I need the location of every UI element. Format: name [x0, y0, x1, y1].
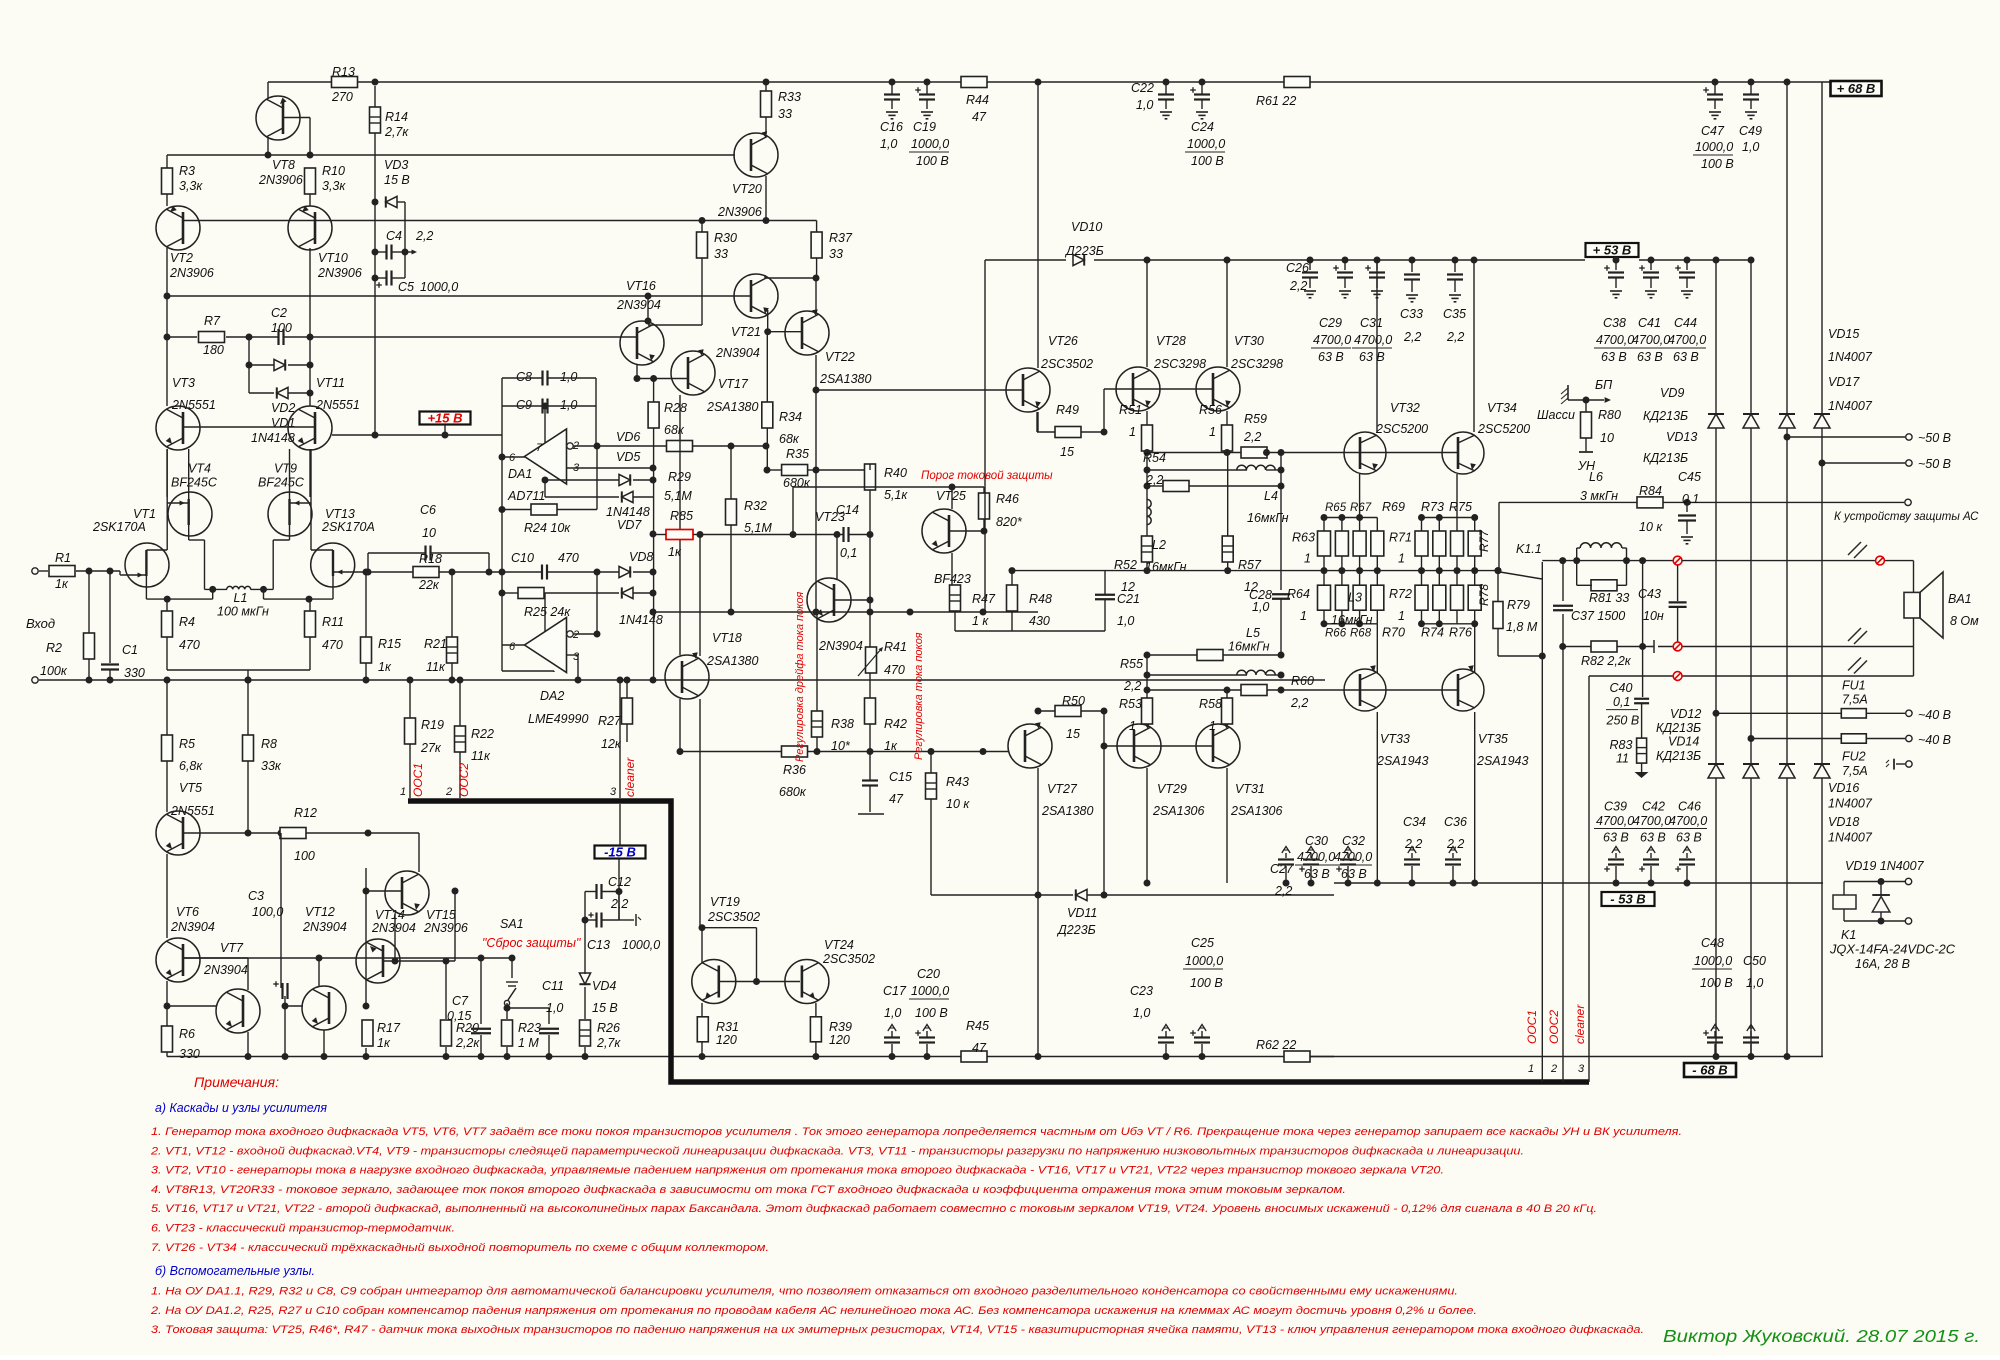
svg-text:ООС2: ООС2: [1547, 1010, 1561, 1044]
svg-text:R63: R63: [1292, 531, 1315, 545]
svg-text:SA1: SA1: [500, 917, 524, 931]
svg-text:R71: R71: [1389, 531, 1412, 545]
svg-text:6: 6: [509, 641, 516, 653]
svg-text:КД213Б: КД213Б: [1656, 721, 1701, 735]
svg-text:10: 10: [1600, 431, 1614, 445]
svg-text:R47: R47: [972, 592, 996, 606]
svg-text:33: 33: [829, 247, 843, 261]
svg-text:1к: 1к: [55, 577, 69, 591]
svg-text:- 53 В: - 53 В: [1610, 892, 1645, 907]
svg-text:R25 24к: R25 24к: [524, 605, 571, 619]
svg-text:33: 33: [714, 247, 728, 261]
svg-text:1к: 1к: [377, 1036, 391, 1050]
svg-text:L2: L2: [1152, 538, 1166, 552]
svg-text:~50 В: ~50 В: [1918, 457, 1951, 471]
svg-text:R21: R21: [424, 637, 447, 651]
svg-text:VD1: VD1: [271, 416, 295, 430]
svg-text:11к: 11к: [471, 749, 491, 763]
svg-text:~50 В: ~50 В: [1918, 431, 1951, 445]
svg-text:R8: R8: [261, 737, 277, 751]
svg-text:2,2: 2,2: [1145, 473, 1163, 487]
svg-text:VT5: VT5: [179, 781, 202, 795]
svg-text:2,7к: 2,7к: [384, 125, 409, 139]
svg-text:4700,0: 4700,0: [1633, 814, 1671, 828]
svg-text:VT18: VT18: [712, 631, 742, 645]
svg-text:15 В: 15 В: [592, 1001, 618, 1015]
svg-text:VT19: VT19: [710, 895, 740, 909]
svg-text:2,2: 2,2: [1404, 837, 1422, 851]
svg-text:R61 22: R61 22: [1256, 94, 1296, 108]
svg-text:C32: C32: [1342, 834, 1365, 848]
svg-text:R83: R83: [1610, 738, 1633, 752]
svg-text:R78: R78: [1477, 584, 1491, 606]
svg-text:C46: C46: [1678, 800, 1701, 814]
svg-text:VT30: VT30: [1234, 334, 1264, 348]
svg-text:1. Генератор тока входного диф: 1. Генератор тока входного дифкаскада VT…: [151, 1126, 1682, 1138]
svg-text:1000,0: 1000,0: [911, 984, 949, 998]
svg-text:2. На ОУ DA1.2, R25, R27 и C10: 2. На ОУ DA1.2, R25, R27 и C10 собран ко…: [150, 1305, 1477, 1317]
svg-text:16мкГн: 16мкГн: [1247, 511, 1289, 525]
svg-text:2N3906: 2N3906: [423, 921, 468, 935]
svg-text:C9: C9: [516, 398, 532, 412]
svg-text:1,0: 1,0: [884, 1006, 901, 1020]
svg-text:R40: R40: [884, 466, 907, 480]
svg-text:120: 120: [829, 1033, 850, 1047]
svg-text:R69: R69: [1382, 500, 1405, 514]
svg-text:R79: R79: [1507, 598, 1530, 612]
svg-text:BF245C: BF245C: [171, 476, 218, 490]
svg-text:4700,0: 4700,0: [1632, 333, 1670, 347]
svg-text:3,3к: 3,3к: [179, 179, 203, 193]
svg-text:C4: C4: [386, 229, 402, 243]
svg-text:УН: УН: [1577, 459, 1596, 473]
svg-text:R28: R28: [664, 401, 687, 415]
svg-text:К устройству защиты АС: К устройству защиты АС: [1834, 511, 1979, 523]
svg-text:R54: R54: [1143, 451, 1166, 465]
svg-text:VT12: VT12: [305, 905, 335, 919]
svg-text:4700,0: 4700,0: [1354, 333, 1392, 347]
svg-text:15: 15: [1066, 727, 1080, 741]
svg-text:VT22: VT22: [825, 350, 855, 364]
svg-text:1000,0: 1000,0: [1695, 140, 1733, 154]
svg-text:2,7к: 2,7к: [596, 1036, 621, 1050]
svg-text:2,2: 2,2: [1403, 330, 1421, 344]
svg-text:C50: C50: [1743, 954, 1766, 968]
svg-text:2SA1380: 2SA1380: [706, 654, 758, 668]
svg-text:2SA1943: 2SA1943: [1476, 754, 1528, 768]
svg-text:68к: 68к: [664, 423, 685, 437]
svg-text:R68: R68: [1350, 627, 1372, 639]
svg-text:C48: C48: [1701, 936, 1724, 950]
svg-text:R46: R46: [996, 492, 1019, 506]
svg-text:100 В: 100 В: [1701, 157, 1734, 171]
svg-text:2. VT1, VT12 - входной дифкаск: 2. VT1, VT12 - входной дифкаскад.VT4, VT…: [150, 1145, 1524, 1157]
svg-text:VT8: VT8: [272, 158, 295, 172]
svg-text:10 к: 10 к: [1639, 520, 1663, 534]
svg-text:C41: C41: [1638, 316, 1661, 330]
svg-text:R53: R53: [1119, 697, 1142, 711]
svg-text:100 В: 100 В: [915, 1006, 948, 1020]
svg-text:7: 7: [536, 442, 543, 454]
svg-text:0,1: 0,1: [1682, 492, 1699, 506]
svg-text:R27: R27: [598, 714, 622, 728]
svg-text:270: 270: [331, 90, 353, 104]
svg-text:2,2: 2,2: [1123, 679, 1141, 693]
svg-text:Д223Б: Д223Б: [1056, 923, 1096, 937]
svg-text:1N4007: 1N4007: [1828, 399, 1873, 413]
svg-text:1N4007: 1N4007: [1828, 831, 1873, 845]
svg-text:R5: R5: [179, 737, 195, 751]
svg-text:VD18: VD18: [1828, 815, 1859, 829]
svg-text:2SK170A: 2SK170A: [92, 520, 146, 534]
svg-text:БП: БП: [1595, 378, 1613, 392]
svg-text:100 В: 100 В: [916, 154, 949, 168]
svg-text:VT14: VT14: [375, 908, 405, 922]
svg-text:27к: 27к: [420, 741, 442, 755]
svg-text:L3: L3: [1348, 591, 1362, 605]
svg-text:1000,0: 1000,0: [1694, 954, 1732, 968]
svg-text:C29: C29: [1319, 316, 1342, 330]
svg-text:C40: C40: [1610, 681, 1633, 695]
svg-text:C21: C21: [1117, 592, 1140, 606]
svg-text:R7: R7: [204, 314, 221, 328]
svg-text:VT2: VT2: [170, 251, 193, 265]
svg-text:C6: C6: [420, 503, 436, 517]
svg-text:2,2: 2,2: [415, 229, 433, 243]
svg-text:C7: C7: [452, 994, 469, 1008]
svg-text:5,1к: 5,1к: [884, 488, 908, 502]
svg-text:3. VT2, VT10 - генераторы тока: 3. VT2, VT10 - генераторы тока в нагрузк…: [151, 1165, 1444, 1177]
svg-text:C24: C24: [1191, 120, 1214, 134]
svg-text:100: 100: [294, 849, 315, 863]
svg-text:1,0: 1,0: [1742, 140, 1759, 154]
svg-text:VT17: VT17: [718, 377, 749, 391]
svg-text:2SC3298: 2SC3298: [1153, 357, 1206, 371]
svg-text:3. Токовая защита: VT25, R46*,: 3. Токовая защита: VT25, R46*, R47 - дат…: [151, 1324, 1644, 1336]
svg-text:330: 330: [124, 666, 145, 680]
svg-text:VD17: VD17: [1828, 375, 1860, 389]
svg-text:R59: R59: [1244, 412, 1267, 426]
svg-text:VT29: VT29: [1157, 782, 1187, 796]
svg-text:63 В: 63 В: [1318, 350, 1344, 364]
svg-text:C5: C5: [398, 280, 414, 294]
svg-text:VT13: VT13: [325, 507, 355, 521]
svg-text:5,1М: 5,1М: [664, 489, 692, 503]
svg-text:1: 1: [400, 786, 406, 798]
svg-text:120: 120: [716, 1033, 737, 1047]
svg-text:10 к: 10 к: [946, 797, 970, 811]
svg-text:C10: C10: [511, 551, 534, 565]
svg-text:ООС1: ООС1: [1525, 1010, 1539, 1044]
svg-text:R19: R19: [421, 718, 444, 732]
svg-text:R24 10к: R24 10к: [524, 521, 571, 535]
svg-text:C20: C20: [917, 967, 940, 981]
svg-text:BA1: BA1: [1948, 592, 1972, 606]
svg-text:C2: C2: [271, 306, 287, 320]
svg-text:R55: R55: [1120, 657, 1143, 671]
svg-text:R33: R33: [778, 90, 801, 104]
svg-text:R42: R42: [884, 717, 907, 731]
svg-text:K1.1: K1.1: [1516, 542, 1542, 556]
svg-text:1N4148: 1N4148: [606, 505, 650, 519]
svg-text:R30: R30: [714, 231, 737, 245]
svg-text:+ 68 В: + 68 В: [1837, 81, 1876, 96]
svg-text:а) Каскады и узлы усилителя: а) Каскады и узлы усилителя: [155, 1100, 327, 1115]
svg-text:1,0: 1,0: [1136, 98, 1153, 112]
svg-text:100: 100: [271, 321, 292, 335]
svg-text:L1: L1: [234, 591, 248, 605]
svg-text:2,2: 2,2: [1446, 837, 1464, 851]
svg-text:2SA1380: 2SA1380: [1041, 804, 1093, 818]
svg-text:2,2: 2,2: [1243, 430, 1261, 444]
svg-text:R38: R38: [831, 717, 854, 731]
svg-text:R22: R22: [471, 727, 494, 741]
svg-text:R14: R14: [385, 110, 408, 124]
svg-text:2N3904: 2N3904: [371, 921, 416, 935]
svg-text:VD7: VD7: [617, 518, 642, 532]
svg-text:VT26: VT26: [1048, 334, 1078, 348]
svg-text:R77: R77: [1477, 529, 1491, 552]
svg-text:2N3906: 2N3906: [317, 266, 362, 280]
svg-text:VT23: VT23: [815, 510, 845, 524]
svg-text:2N3906: 2N3906: [169, 266, 214, 280]
svg-text:VD4: VD4: [592, 979, 616, 993]
svg-text:1: 1: [1129, 719, 1136, 733]
svg-text:C36: C36: [1444, 815, 1467, 829]
svg-text:+15 В: +15 В: [427, 411, 462, 426]
svg-text:VD15: VD15: [1828, 327, 1859, 341]
svg-text:R44: R44: [966, 93, 989, 107]
svg-text:C23: C23: [1130, 984, 1153, 998]
svg-text:1,0: 1,0: [560, 370, 577, 384]
svg-text:R82 2,2к: R82 2,2к: [1581, 654, 1632, 668]
svg-text:10: 10: [422, 526, 436, 540]
svg-text:2N3904: 2N3904: [616, 298, 661, 312]
svg-text:R32: R32: [744, 499, 767, 513]
svg-text:100 В: 100 В: [1700, 976, 1733, 990]
svg-text:VD3: VD3: [384, 158, 408, 172]
svg-text:+ 53 В: + 53 В: [1593, 243, 1632, 258]
svg-text:470: 470: [884, 663, 905, 677]
svg-text:C39: C39: [1604, 800, 1627, 814]
svg-text:VT25: VT25: [936, 489, 966, 503]
svg-text:R66: R66: [1325, 627, 1347, 639]
svg-text:C13: C13: [587, 938, 610, 952]
svg-text:R17: R17: [377, 1021, 401, 1035]
svg-text:ООС1: ООС1: [411, 763, 425, 797]
svg-text:R81 33: R81 33: [1589, 591, 1629, 605]
svg-text:VT27: VT27: [1047, 782, 1078, 796]
svg-text:VT3: VT3: [172, 376, 195, 390]
svg-text:R36: R36: [783, 763, 806, 777]
svg-text:R60: R60: [1291, 674, 1314, 688]
svg-text:C47: C47: [1701, 124, 1725, 138]
svg-text:C38: C38: [1603, 316, 1626, 330]
svg-text:63 В: 63 В: [1603, 831, 1629, 845]
svg-text:4700,0: 4700,0: [1669, 814, 1707, 828]
svg-text:VT24: VT24: [824, 938, 854, 952]
svg-text:R49: R49: [1056, 403, 1079, 417]
svg-text:1N4007: 1N4007: [1828, 797, 1873, 811]
svg-text:4. VT8R13, VT20R33 - токовое з: 4. VT8R13, VT20R33 - токовое зеркало, за…: [151, 1184, 1346, 1196]
svg-text:Вход: Вход: [26, 616, 55, 631]
svg-text:C35: C35: [1443, 307, 1466, 321]
svg-text:2SC3502: 2SC3502: [822, 952, 875, 966]
svg-text:VT21: VT21: [731, 325, 761, 339]
svg-text:1,0: 1,0: [1252, 600, 1269, 614]
svg-text:LME49990: LME49990: [528, 712, 589, 726]
svg-text:16мкГн: 16мкГн: [1228, 640, 1270, 654]
svg-text:2SC5200: 2SC5200: [1477, 422, 1530, 436]
svg-text:R80: R80: [1598, 408, 1621, 422]
svg-text:1000,0: 1000,0: [911, 137, 949, 151]
svg-text:2: 2: [445, 786, 452, 798]
svg-text:Шасси: Шасси: [1537, 408, 1575, 422]
svg-text:5. VT16, VT17 и VT21, VT22 - в: 5. VT16, VT17 и VT21, VT22 - второй дифк…: [151, 1203, 1597, 1215]
svg-text:R75: R75: [1449, 500, 1472, 514]
svg-text:FU2: FU2: [1842, 750, 1866, 764]
svg-text:63 В: 63 В: [1341, 867, 1367, 881]
svg-text:15: 15: [1060, 445, 1074, 459]
svg-text:470: 470: [322, 638, 343, 652]
svg-text:2N3904: 2N3904: [715, 346, 760, 360]
svg-text:100 В: 100 В: [1190, 976, 1223, 990]
svg-text:2,2к: 2,2к: [455, 1036, 480, 1050]
svg-text:R35: R35: [786, 447, 809, 461]
svg-text:VD9: VD9: [1660, 386, 1684, 400]
svg-text:4700,0: 4700,0: [1596, 814, 1634, 828]
svg-text:1,0: 1,0: [1746, 976, 1763, 990]
svg-text:C37 1500: C37 1500: [1571, 609, 1625, 623]
svg-text:1,0: 1,0: [546, 1001, 563, 1015]
svg-text:63 В: 63 В: [1304, 867, 1330, 881]
svg-text:4700,0: 4700,0: [1668, 333, 1706, 347]
svg-text:3: 3: [573, 651, 580, 663]
svg-text:R67: R67: [1350, 502, 1372, 514]
svg-text:L4: L4: [1264, 489, 1278, 503]
svg-text:100к: 100к: [40, 664, 68, 678]
svg-text:3: 3: [1578, 1063, 1585, 1075]
svg-text:C11: C11: [542, 979, 564, 993]
svg-text:1000,0: 1000,0: [1185, 954, 1223, 968]
svg-text:VD2: VD2: [271, 401, 295, 415]
svg-text:63 В: 63 В: [1673, 350, 1699, 364]
svg-text:R43: R43: [946, 775, 969, 789]
svg-text:R84: R84: [1639, 484, 1662, 498]
svg-text:2N3904: 2N3904: [302, 920, 347, 934]
svg-text:VT6: VT6: [176, 905, 199, 919]
svg-text:1: 1: [1398, 609, 1405, 623]
svg-text:7. VT26 - VT34 - классический: 7. VT26 - VT34 - классический трёхкаскад…: [151, 1242, 769, 1254]
svg-text:C49: C49: [1739, 124, 1762, 138]
svg-text:8 Ом: 8 Ом: [1950, 614, 1979, 628]
svg-text:2N3906: 2N3906: [258, 173, 303, 187]
svg-text:~40 В: ~40 В: [1918, 733, 1951, 747]
svg-text:16А, 28 В: 16А, 28 В: [1855, 957, 1910, 971]
svg-text:C19: C19: [913, 120, 936, 134]
svg-text:R64: R64: [1287, 587, 1310, 601]
svg-text:R45: R45: [966, 1019, 989, 1033]
svg-text:63 В: 63 В: [1676, 831, 1702, 845]
svg-text:C31: C31: [1360, 316, 1383, 330]
svg-text:22к: 22к: [418, 578, 440, 592]
svg-text:330: 330: [179, 1047, 200, 1061]
svg-text:5,1М: 5,1М: [744, 521, 772, 535]
svg-text:Регулировка дрейфа тока покоя: Регулировка дрейфа тока покоя: [794, 592, 806, 762]
svg-text:1: 1: [1300, 609, 1307, 623]
svg-text:C25: C25: [1191, 936, 1214, 950]
svg-text:1: 1: [1129, 425, 1136, 439]
svg-text:VT31: VT31: [1235, 782, 1265, 796]
svg-text:3: 3: [610, 786, 617, 798]
svg-text:6,8к: 6,8к: [179, 759, 203, 773]
svg-text:FU1: FU1: [1842, 679, 1866, 693]
svg-text:R85: R85: [670, 509, 693, 523]
svg-text:R6: R6: [179, 1027, 195, 1041]
svg-text:2SC3502: 2SC3502: [707, 910, 760, 924]
svg-text:КД213Б: КД213Б: [1656, 749, 1701, 763]
svg-text:33: 33: [778, 107, 792, 121]
svg-text:б) Вспомогательные узлы.: б) Вспомогательные узлы.: [155, 1263, 315, 1278]
svg-text:VT34: VT34: [1487, 401, 1517, 415]
svg-text:1 к: 1 к: [972, 614, 989, 628]
svg-text:15 В: 15 В: [384, 173, 410, 187]
svg-text:C42: C42: [1642, 800, 1665, 814]
svg-text:2SA1380: 2SA1380: [706, 400, 758, 414]
svg-text:2SC5200: 2SC5200: [1375, 422, 1428, 436]
svg-text:47: 47: [972, 110, 987, 124]
svg-text:cleaner: cleaner: [623, 757, 637, 797]
svg-text:63 В: 63 В: [1640, 831, 1666, 845]
svg-text:cleaner: cleaner: [1573, 1004, 1587, 1044]
svg-text:R48: R48: [1029, 592, 1052, 606]
svg-text:R4: R4: [179, 615, 195, 629]
svg-text:VD12: VD12: [1670, 707, 1701, 721]
svg-text:VT11: VT11: [316, 376, 345, 390]
svg-text:AD711: AD711: [507, 489, 545, 503]
svg-text:11к: 11к: [426, 660, 446, 674]
svg-text:16мкГн: 16мкГн: [1145, 560, 1187, 574]
svg-text:R72: R72: [1389, 587, 1412, 601]
svg-text:Порог токовой защиты: Порог токовой защиты: [921, 470, 1053, 482]
svg-text:VD10: VD10: [1071, 220, 1102, 234]
svg-text:R41: R41: [884, 640, 907, 654]
svg-text:C33: C33: [1400, 307, 1423, 321]
svg-text:2N3904: 2N3904: [170, 920, 215, 934]
svg-text:470: 470: [179, 638, 200, 652]
svg-text:ООС2: ООС2: [457, 763, 471, 797]
svg-text:JQX-14FA-24VDC-2C: JQX-14FA-24VDC-2C: [1829, 943, 1956, 957]
svg-text:VD16: VD16: [1828, 781, 1859, 795]
svg-text:R26: R26: [597, 1021, 620, 1035]
svg-text:2,2: 2,2: [1274, 884, 1292, 898]
svg-text:180: 180: [203, 343, 224, 357]
svg-text:1: 1: [1528, 1063, 1534, 1075]
svg-text:VT20: VT20: [732, 182, 762, 196]
svg-text:R56: R56: [1199, 403, 1222, 417]
svg-text:1,8 М: 1,8 М: [1506, 620, 1538, 634]
svg-text:100 мкГн: 100 мкГн: [217, 605, 269, 619]
svg-text:12к: 12к: [601, 737, 622, 751]
svg-text:1,0: 1,0: [1133, 1006, 1150, 1020]
svg-text:100,0: 100,0: [252, 905, 283, 919]
svg-text:VD8: VD8: [629, 550, 653, 564]
svg-text:R15: R15: [378, 637, 401, 651]
svg-text:250 В: 250 В: [1606, 714, 1640, 728]
svg-text:47: 47: [889, 792, 904, 806]
svg-text:4700,0: 4700,0: [1313, 333, 1351, 347]
svg-text:100 В: 100 В: [1191, 154, 1224, 168]
